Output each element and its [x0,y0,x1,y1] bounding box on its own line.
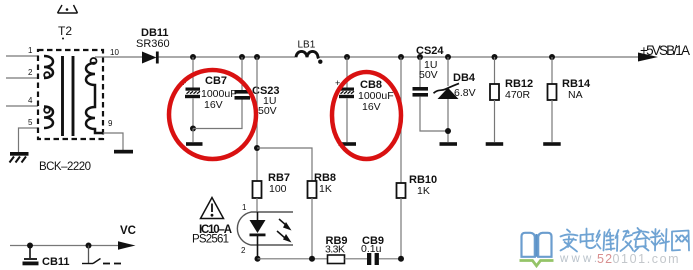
svg-text:6.8V: 6.8V [454,87,476,99]
node dot RB14 [549,54,555,60]
wire pin9 to ground [103,133,123,150]
svg-text:0.1u: 0.1u [361,243,382,255]
svg-text:VC: VC [120,225,136,237]
wire pin2 lead [6,77,38,79]
T2 core lines [61,56,64,136]
svg-text:2: 2 [241,246,246,255]
ground bar DB4 [440,142,458,146]
node dot CB7 bottom [190,126,196,132]
capacitor CB11 [29,246,31,259]
svg-text:16V: 16V [204,99,223,111]
red circle around CB8 [332,72,401,159]
ground bar CB7 [186,142,203,146]
char dian [581,229,596,249]
node dot CB8 [344,54,350,60]
svg-text:1: 1 [28,46,33,55]
watermark book icon [522,233,552,257]
char jia [561,230,578,252]
svg-text:LB1: LB1 [298,40,316,51]
svg-text:5: 5 [28,118,33,127]
capacitor CB8 [346,57,348,88]
svg-text:100: 100 [269,183,287,195]
capacitor CS24 [419,57,421,87]
node dot CS23 [239,54,245,60]
svg-text:CS24: CS24 [416,45,444,57]
capacitor CS23 [241,57,243,90]
wire to RB8 [257,148,312,181]
svg-text:1K: 1K [417,185,430,197]
output arrow +5VSB/1A [638,53,658,62]
wire CS23 bottom link [193,100,242,129]
capacitor CB7 [192,57,194,88]
resistor RB12 [494,57,496,84]
char xiu [616,230,634,251]
node dot CS24 [417,54,423,60]
svg-text:CB7: CB7 [205,75,227,87]
svg-text:10: 10 [110,48,119,57]
wire pin5 lead [19,128,39,152]
svg-text:SR360: SR360 [136,38,170,50]
svg-text:0101.com: 0101.com [613,252,681,266]
node dot DB4 [445,54,451,60]
warning triangle [201,198,224,219]
svg-text:52: 52 [597,252,613,266]
bottom feedback rail [255,256,261,262]
svg-text:50V: 50V [258,105,277,117]
resistor RB8 [308,181,317,198]
wire pin4 lead [6,105,38,107]
node dot CB11 [27,243,33,249]
ground bar CB8 [339,142,357,146]
resistor RB7 [253,181,262,198]
capacitor CB9 [367,253,371,265]
svg-text:BCK–2220: BCK–2220 [39,161,91,173]
inductor LB1 [296,51,319,58]
wire CB7 to ground [192,129,194,143]
optocoupler IC10-A LED [256,198,258,212]
ground chassis (pin5) [10,152,29,156]
char wei [597,230,615,251]
wire main +5V rail [95,56,142,58]
T2 primary winding 2 (pins 4-5) [44,107,53,129]
resistor RB14 [551,57,553,84]
svg-text:2: 2 [28,68,33,77]
node dot RB10 [398,54,404,60]
clipped warning triangle top [58,5,78,13]
svg-text:1K: 1K [319,183,332,195]
wire feedback vertical [256,57,258,181]
svg-text:NA: NA [568,89,583,101]
svg-text:4: 4 [28,96,33,105]
node dot feedback line [254,54,260,60]
svg-text:50V: 50V [419,69,438,81]
char wang [672,231,689,251]
resistor RB9 [328,255,345,264]
svg-text:T2: T2 [58,24,72,38]
wire pin1 lead [6,55,38,57]
node dot RB12 [492,54,498,60]
svg-text:CB11: CB11 [42,256,70,268]
ground bar RB12 [486,142,504,146]
char liao [651,229,670,251]
node dot switch [86,243,92,249]
ground bar (pin9) [114,150,133,154]
svg-text:9: 9 [108,119,113,128]
svg-text:470R: 470R [505,89,531,101]
char zi [633,228,650,252]
T2 primary winding 1 (pins 1-2) [44,56,53,78]
resistor RB10 [400,57,402,183]
ground bar RB14 [543,142,561,146]
svg-text:DB4: DB4 [453,72,476,84]
zener diode DB4 [447,57,449,86]
VC circuit bottom left [10,245,121,247]
red circle around CB7 [169,70,256,159]
svg-text:www.: www. [559,253,600,265]
node dot DB4 bottom [445,128,451,134]
watermark chinese text [561,228,690,252]
svg-text:16V: 16V [362,101,381,113]
svg-text:3.3K: 3.3K [325,244,345,256]
LED arrows [277,219,287,238]
transformer T2 dashed box [38,50,103,139]
svg-text:PS2561: PS2561 [192,234,229,246]
svg-text:+5VSB/1A: +5VSB/1A [640,43,690,58]
watermark green base [520,261,554,266]
diode DB11 [142,52,157,64]
node dot feedback [254,145,260,151]
LB1 polarity dot [318,60,322,64]
T2 secondary winding [86,63,103,133]
node dot CB7 [190,54,196,60]
switch symbol [88,246,90,264]
svg-text:1: 1 [242,203,247,212]
